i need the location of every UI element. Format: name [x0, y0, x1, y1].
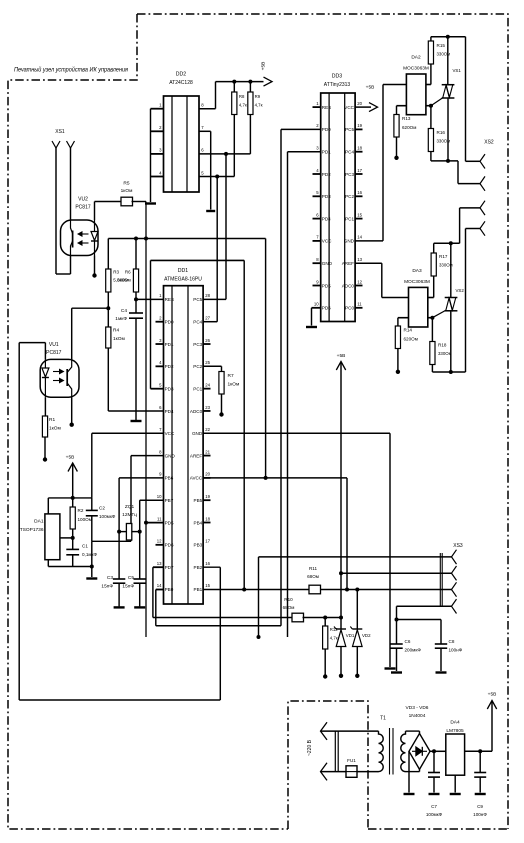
svg-text:XS2: XS2 [484, 140, 494, 146]
capacitor C3 [113, 578, 125, 580]
svg-text:C2: C2 [99, 506, 105, 511]
wire DA2 triac-drive pin [426, 105, 433, 107]
resistor R15 [430, 37, 432, 41]
svg-text:620Ом: 620Ом [404, 337, 418, 342]
svg-text:DA3: DA3 [412, 268, 422, 274]
svg-text:GND: GND [322, 261, 333, 266]
svg-text:DD3: DD3 [332, 74, 342, 80]
svg-text:R4: R4 [113, 328, 119, 334]
junction R8 rail [232, 80, 236, 84]
connector XS3 pin 2 [452, 566, 457, 580]
rail +5V top [216, 81, 264, 83]
triac VS2 [445, 298, 458, 311]
svg-text:15: 15 [357, 212, 362, 217]
svg-text:PB6: PB6 [165, 476, 174, 481]
svg-text:VS2: VS2 [456, 288, 465, 293]
svg-text:19: 19 [357, 123, 362, 128]
svg-text:10: 10 [157, 494, 162, 499]
wire mains line 1 [321, 730, 379, 732]
ground C3 [114, 606, 125, 608]
connector XS2 pin 1 [480, 154, 485, 168]
svg-text:100Ом: 100Ом [78, 517, 92, 522]
wire DA2 LED cathode to R13 [397, 105, 407, 107]
svg-text:PD5: PD5 [322, 283, 331, 288]
svg-text:DD1: DD1 [178, 268, 188, 274]
svg-text:23: 23 [205, 405, 210, 410]
svg-text:ATTiny2313: ATTiny2313 [324, 82, 351, 88]
svg-text:PB0: PB0 [165, 587, 174, 592]
svg-text:620Ом: 620Ом [402, 125, 416, 130]
wire C6-C8 bracket [397, 619, 442, 621]
svg-text:24: 24 [205, 382, 210, 387]
junction RES node [134, 297, 138, 301]
svg-text:100мкФ: 100мкФ [426, 812, 443, 817]
wire XS2 pin4 to DA3 bottom rail [466, 228, 481, 230]
svg-text:28: 28 [205, 293, 210, 298]
wire DD3 PD1 to PD5 line [288, 151, 321, 153]
svg-text:~220 В: ~220 В [307, 739, 313, 756]
svg-text:XS3: XS3 [453, 543, 463, 549]
resistor R1 [44, 397, 46, 416]
power arrow +5V PSU [487, 701, 496, 710]
svg-text:13: 13 [157, 561, 162, 566]
wire DA4 ground pin [454, 775, 456, 792]
svg-text:DA1: DA1 [34, 519, 44, 525]
svg-text:+5В: +5В [337, 353, 346, 359]
svg-text:R8: R8 [239, 94, 245, 99]
ground C5 [134, 606, 145, 608]
wire XS2 pin3 to DA3 rail [460, 207, 480, 209]
wire rail right to XS2 pin1 [465, 37, 467, 162]
wire DA3 triac-drive pin [428, 317, 434, 319]
junction AVCC/PB1 line [345, 588, 349, 592]
svg-text:R17: R17 [439, 254, 448, 259]
resistor R8 [233, 82, 235, 92]
ground DD1 GND [385, 667, 396, 669]
wire DD1 GND to C2 return [131, 455, 164, 457]
wire DD1 PB1 line (XS3 pin3) [203, 589, 309, 591]
wire XS1.1 to VU2 transistor bottom [56, 273, 71, 275]
svg-text:1кОм: 1кОм [113, 336, 125, 342]
svg-text:DA2: DA2 [411, 55, 421, 61]
svg-text:PD6: PD6 [322, 306, 331, 311]
svg-text:21: 21 [205, 449, 210, 454]
svg-text:4,7к: 4,7к [239, 103, 247, 108]
wire XS3 pin1 line [259, 556, 452, 558]
svg-text:C6: C6 [405, 639, 411, 644]
svg-text:PC5: PC5 [193, 297, 202, 302]
wire DD1 PD3 stub [151, 388, 164, 390]
wire DD1 PC4 to DD2 [203, 321, 217, 323]
junction R3/R4/VU1 node [106, 306, 110, 310]
wire VS2 bottom [450, 311, 452, 372]
svg-text:+5В: +5В [366, 85, 375, 91]
optocoupler DA3 MOC3063M body [409, 287, 428, 327]
svg-text:PD4: PD4 [322, 216, 331, 221]
junction pin1 line / PD5 line [257, 635, 261, 639]
connector XS1 pin 2 [67, 141, 75, 148]
connector XS2 pin 4 [480, 221, 485, 235]
junction C7 [432, 749, 436, 753]
capacitor C7 [433, 751, 435, 772]
svg-text:DA4: DA4 [450, 720, 460, 726]
wire DD3 PD0 to PB0 line [281, 128, 321, 130]
svg-text:PD1: PD1 [165, 342, 174, 347]
mains connector lines [334, 731, 336, 772]
svg-text:AT24C128: AT24C128 [169, 80, 193, 86]
zener VD2 [356, 590, 358, 630]
ground DD2 left bus [145, 202, 156, 204]
resistor R6 [135, 239, 137, 270]
connector XS1 pin 1 [52, 141, 60, 148]
svg-text:36кОм: 36кОм [117, 278, 131, 283]
svg-text:19: 19 [205, 494, 210, 499]
wire DD1 PD7 to R10 line [153, 566, 164, 568]
ground DD3 PD6 [306, 326, 317, 328]
svg-text:VCC: VCC [322, 239, 332, 244]
zener VD1 [340, 618, 342, 630]
ground C7 [429, 793, 440, 795]
svg-text:T1: T1 [380, 716, 386, 722]
svg-text:0,1мкФ: 0,1мкФ [82, 552, 98, 557]
wire DD2 pin5 (SDA) [199, 176, 234, 178]
junction rail/VS1 [446, 35, 450, 39]
wire DA3 LED cathode to R14 [398, 317, 409, 319]
IC DD3 right pin names/numbers [342, 101, 363, 311]
wire RES to DD1 pin1 [136, 298, 164, 300]
power arrow +5V DD3 VCC [355, 106, 371, 108]
svg-text:PC2: PC2 [345, 194, 354, 199]
ground bridge [404, 793, 415, 795]
IC DD3 short right stubs [355, 129, 362, 307]
junction VS1 bottom rail [446, 159, 450, 163]
wire bridge minus to ground [408, 751, 410, 792]
svg-text:PB1: PB1 [194, 587, 203, 592]
svg-text:VD2: VD2 [362, 633, 371, 638]
capacitor C6 [390, 643, 402, 645]
mains arrow N [321, 763, 328, 781]
svg-text:C7: C7 [431, 804, 437, 809]
svg-text:PB4: PB4 [194, 520, 203, 525]
svg-text:100мкФ: 100мкФ [99, 514, 116, 519]
wire bottom run to PB2 [19, 699, 220, 701]
resistor R16 [430, 106, 432, 129]
svg-text:R1: R1 [49, 417, 55, 423]
svg-text:LM7805: LM7805 [446, 728, 464, 734]
resistor R5 [121, 197, 133, 206]
wire DD1 PC5 to DD2 [203, 298, 226, 300]
wire DA1 ground return [47, 560, 49, 567]
IC DA4 LM7805 body [446, 734, 465, 775]
svg-text:PD5: PD5 [165, 520, 174, 525]
junction crystal left [117, 530, 121, 534]
svg-text:11: 11 [157, 516, 162, 521]
wire DD1 PB6 to crystal [119, 477, 163, 479]
wire DD1 VCC from +5V rail [92, 432, 164, 434]
svg-text:TSOP1736: TSOP1736 [20, 527, 44, 533]
resistor R9 [249, 82, 251, 92]
svg-text:4,7к: 4,7к [330, 636, 338, 641]
wire DD1 PB0 to PD0 line [156, 589, 164, 591]
svg-text:13: 13 [357, 257, 362, 262]
svg-text:AREF: AREF [342, 261, 354, 266]
svg-text:R5: R5 [123, 181, 129, 187]
svg-text:C1: C1 [82, 544, 88, 549]
wire DA2 bottom rail to XS2 pin2 [431, 160, 458, 162]
wire bridge plus to DA4 [430, 750, 446, 752]
svg-text:PD0: PD0 [165, 320, 174, 325]
resistor R11 [309, 585, 321, 594]
ground DA4 [450, 793, 461, 795]
svg-text:PD6: PD6 [165, 543, 174, 548]
ground C6 [391, 671, 402, 673]
svg-text:1N4004: 1N4004 [409, 713, 426, 719]
svg-text:VU2: VU2 [78, 197, 88, 203]
svg-text:VD1: VD1 [346, 633, 355, 638]
junction VS2 bottom rail [449, 370, 453, 374]
svg-text:4,7к: 4,7к [255, 103, 263, 108]
svg-text:PC4: PC4 [193, 320, 202, 325]
wire VU2 LED anode to R5 [94, 202, 96, 221]
svg-text:+5В: +5В [66, 455, 75, 461]
svg-text:PD3: PD3 [322, 194, 331, 199]
terminal VU1 emitter [71, 397, 73, 423]
frame: mains input boundary (dash-dot) [288, 701, 368, 829]
svg-text:14: 14 [157, 583, 162, 588]
wire DD2 pin8 to +5V rail [199, 108, 216, 110]
capacitor C4 [135, 299, 137, 313]
svg-text:R11: R11 [309, 566, 318, 571]
svg-text:PB7: PB7 [165, 498, 174, 503]
wire DD1 PD5 stub [146, 522, 164, 524]
svg-text:VU1: VU1 [49, 342, 59, 348]
terminal VD2 bottom [355, 674, 359, 678]
terminal VD1 bottom [339, 674, 343, 678]
svg-text:17: 17 [205, 539, 210, 544]
svg-text:R3: R3 [113, 270, 119, 275]
junction R5-bus / +5V net [144, 237, 148, 241]
junction DA1 out/C1 [71, 536, 75, 540]
ground C9 [475, 793, 486, 795]
wire PD3 riser [150, 260, 152, 388]
svg-text:PC3: PC3 [193, 342, 202, 347]
ground C8 [436, 671, 447, 673]
terminal R7 bottom [219, 412, 223, 416]
wire VU1 collector to R3/R4 node [71, 308, 73, 359]
connector XS2 pin 2 [480, 176, 485, 190]
svg-text:PD1: PD1 [322, 150, 331, 155]
junction C2/C1 gnd [90, 565, 94, 569]
optocoupler VU2 PC817 [61, 220, 99, 256]
svg-text:+5В: +5В [261, 62, 267, 71]
svg-text:PC2: PC2 [193, 364, 202, 369]
resistor R4 [107, 292, 109, 327]
junction PC4/DD2 pin5 [215, 175, 219, 179]
IC DD2 right pin numbers [201, 103, 204, 176]
rail DA3 bottom [432, 371, 465, 373]
wire DD1 PB7 to crystal [140, 499, 164, 501]
wire DA4 out [465, 750, 492, 752]
junction bus / PD5 [144, 521, 148, 525]
svg-text:C8: C8 [449, 639, 455, 644]
connector XS3 body lines [439, 553, 441, 607]
svg-text:18: 18 [357, 146, 362, 151]
svg-text:1кОм: 1кОм [228, 382, 240, 388]
capacitor C1 [72, 538, 74, 550]
resistor R14 [395, 326, 400, 349]
wire DD3 AREF to DA3 input [355, 262, 382, 264]
svg-text:ZQ1: ZQ1 [125, 504, 135, 510]
svg-text:C5: C5 [128, 575, 134, 581]
svg-text:VS1: VS1 [453, 68, 462, 73]
svg-text:11: 11 [357, 302, 362, 307]
svg-text:PB2: PB2 [194, 565, 203, 570]
IC DD3 left pin names/numbers [314, 101, 333, 311]
svg-text:330Ом: 330Ом [438, 351, 452, 356]
optocoupler VU1 PC817 [40, 359, 79, 397]
svg-text:AVCC: AVCC [190, 476, 203, 481]
IC DD2 left pins 1-4 [151, 103, 164, 177]
wire DD3 PD6 to ground [312, 307, 321, 309]
svg-text:16: 16 [357, 190, 362, 195]
svg-text:C9: C9 [477, 804, 483, 809]
svg-text:12МГц: 12МГц [122, 512, 137, 518]
terminal R14 bottom [396, 370, 400, 374]
svg-text:15пФ: 15пФ [101, 584, 113, 590]
svg-text:PC817: PC817 [46, 350, 62, 356]
transformer T1 core [389, 728, 391, 775]
svg-text:C3: C3 [107, 575, 113, 581]
IC DD3 ATTiny2313 body [321, 93, 355, 322]
ground C4 [131, 420, 142, 422]
wire left rail down to bottom run [18, 343, 20, 700]
svg-text:VCC: VCC [165, 431, 175, 436]
svg-text:PC817: PC817 [75, 205, 91, 211]
svg-text:PC3: PC3 [345, 172, 354, 177]
svg-text:12: 12 [357, 279, 362, 284]
power arrow +5V left [68, 463, 77, 472]
mains arrow L [321, 722, 328, 740]
svg-text:PC5: PC5 [345, 127, 354, 132]
junction +5V line / XS3 pin2 line [339, 571, 343, 575]
svg-text:PC4: PC4 [345, 150, 354, 155]
wire R4 to PD4 [108, 410, 163, 412]
wire +5V net (R3 top to AVCC branch) [108, 238, 265, 240]
svg-text:RES: RES [322, 105, 331, 110]
svg-text:15пФ: 15пФ [122, 584, 134, 590]
wire DD1 AVCC [203, 477, 347, 479]
svg-text:18: 18 [205, 516, 210, 521]
svg-text:XS1: XS1 [55, 129, 65, 135]
IC DD1 short left stubs [156, 322, 164, 545]
junction on PB1 line [242, 588, 246, 592]
terminal VU2 emitter [94, 256, 96, 275]
svg-text:R18: R18 [438, 343, 447, 348]
svg-text:VD3 - VD6: VD3 - VD6 [406, 705, 429, 711]
svg-text:FU1: FU1 [347, 758, 356, 763]
svg-text:330Ом: 330Ом [437, 139, 451, 144]
bridge rectifier VD3-VD6 [409, 734, 430, 770]
svg-text:GND: GND [165, 453, 176, 458]
svg-text:R6: R6 [125, 270, 131, 275]
junction DA2 pin4 [429, 104, 433, 108]
svg-text:1кОм: 1кОм [49, 426, 61, 432]
svg-text:PD0: PD0 [322, 127, 331, 132]
capacitor C2 [91, 498, 93, 511]
resistor R18 [431, 318, 433, 342]
junction rail/VS2 [449, 241, 453, 245]
terminal R13 bottom [394, 156, 398, 160]
svg-text:PB3: PB3 [194, 543, 203, 548]
svg-text:200мкФ: 200мкФ [405, 648, 422, 653]
svg-text:PC1: PC1 [345, 216, 354, 221]
svg-text:PD2: PD2 [165, 364, 174, 369]
svg-text:25: 25 [205, 360, 210, 365]
junction C6 branch [395, 618, 399, 622]
svg-text:PB5: PB5 [194, 498, 203, 503]
connector XS3 pin 3 [452, 582, 457, 596]
resistor R2 [72, 498, 74, 507]
IC DD1 short right stubs [203, 344, 210, 522]
power arrow +5V center [336, 362, 345, 371]
svg-text:PD2: PD2 [322, 172, 331, 177]
resistor R13 [394, 115, 399, 138]
junction PC5/DD2 pin6 [224, 152, 228, 156]
wire R10 line to VD1/+5V [303, 617, 342, 619]
svg-text:Печатный узел устройства ИК уп: Печатный узел устройства ИК управления [14, 67, 129, 74]
resistor R10 [292, 613, 304, 622]
wire secondary to bridge [406, 730, 420, 732]
IC DD1 ATMEGA8-16PU body [164, 286, 204, 604]
junction DA3 pin4 [430, 316, 434, 320]
svg-text:MOC3063M: MOC3063M [403, 66, 429, 72]
svg-text:ADC0: ADC0 [190, 409, 203, 414]
svg-text:27: 27 [205, 316, 210, 321]
junction R9 rail [248, 80, 252, 84]
terminal R1 bottom [43, 457, 47, 461]
power arrow +5V top [264, 77, 273, 86]
svg-text:68Ом: 68Ом [283, 605, 295, 610]
rail DA2 top [431, 36, 466, 38]
wire VS1 top [447, 37, 449, 85]
wire DD3 GND to DA2 input [355, 240, 383, 242]
svg-text:R7: R7 [228, 373, 234, 379]
IC DA1 TSOP1736 body [45, 514, 60, 560]
terminal R12 bottom [323, 674, 327, 678]
svg-text:PC1: PC1 [193, 386, 202, 391]
svg-text:DD2: DD2 [176, 72, 186, 78]
svg-text:20: 20 [205, 472, 210, 477]
capacitor C9 [479, 751, 481, 772]
wire DD1 GND right [203, 432, 390, 434]
resistor R3 [107, 239, 109, 270]
junction +5V rail R2 [71, 496, 75, 500]
svg-text:68Ом: 68Ом [307, 574, 319, 579]
connector XS2 pin 3 [480, 201, 485, 215]
junction crystal right [138, 530, 142, 534]
triac VS1 [442, 85, 455, 98]
ground DD2 pin7 [206, 210, 215, 212]
fuse FU1 [321, 771, 347, 773]
svg-text:+5В: +5В [488, 692, 497, 698]
IC DD3 short left stubs [313, 107, 321, 285]
optocoupler DA2 MOC3063M body [406, 74, 426, 115]
wire down to PB1 line [243, 260, 245, 589]
connector XS3 pin 4 [452, 599, 457, 613]
svg-text:ATMEGA8-16PU: ATMEGA8-16PU [164, 277, 202, 283]
capacitor C5 [134, 578, 146, 580]
connector XS3 pin 1 [452, 550, 457, 564]
